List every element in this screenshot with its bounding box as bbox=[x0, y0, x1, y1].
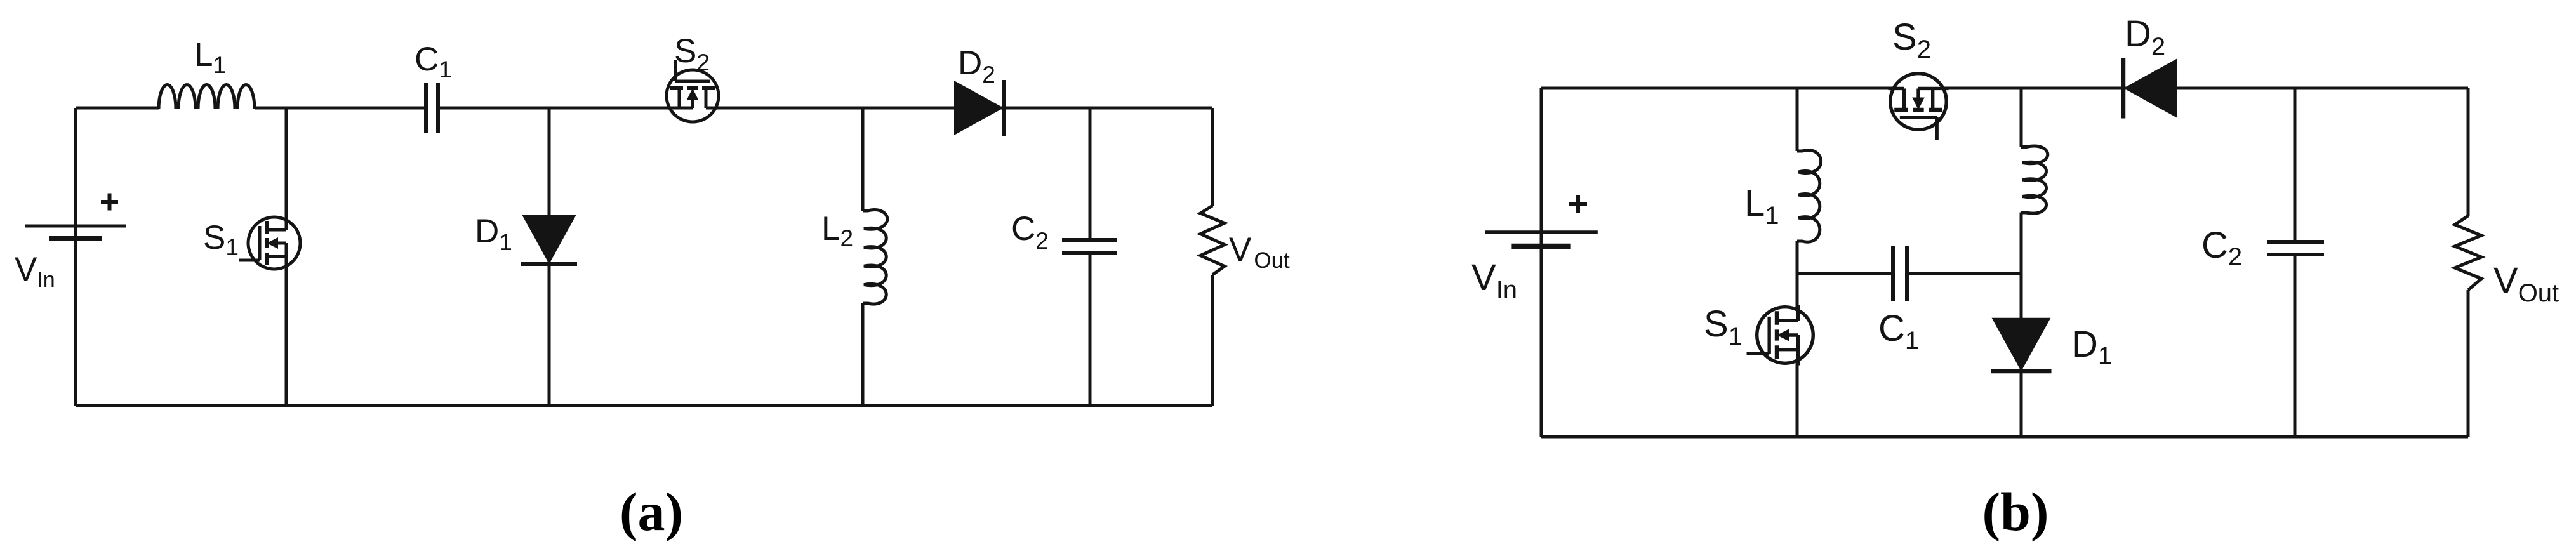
svg-text:C1: C1 bbox=[415, 41, 452, 83]
wire: (b) C2 branch upper bbox=[2294, 88, 2297, 242]
svg-text:L1: L1 bbox=[194, 36, 226, 78]
diode D1 (b) bbox=[1991, 318, 2051, 371]
svg-text:S1: S1 bbox=[1704, 303, 1743, 350]
wire: (b) left branch bbox=[1540, 88, 1543, 437]
svg-text:(a): (a) bbox=[620, 481, 683, 542]
svg-text:S2: S2 bbox=[1892, 17, 1931, 63]
transistor S1 (a) bbox=[239, 215, 300, 271]
svg-text:C2: C2 bbox=[1011, 210, 1049, 254]
svg-text:D1: D1 bbox=[2071, 324, 2112, 370]
diode D2 (a) bbox=[954, 80, 1004, 136]
wire: (a) L2 branch upper bbox=[861, 108, 865, 211]
inductor L1 (b) bbox=[1797, 150, 1821, 242]
inductor L1 bbox=[159, 85, 255, 109]
wire: (a) right branch upper bbox=[1211, 108, 1214, 206]
svg-text:(b): (b) bbox=[1982, 481, 2048, 542]
polarity plus sign (a) bbox=[101, 194, 118, 211]
wire: (a) right branch lower bbox=[1211, 275, 1214, 406]
wire: (a) S1 branch bbox=[285, 108, 288, 406]
wire: (b) branch1 lower bbox=[1796, 241, 1799, 437]
wire: (a) C2 branch lower bbox=[1089, 253, 1092, 406]
svg-text:C1: C1 bbox=[1878, 308, 1919, 355]
svg-text:D1: D1 bbox=[475, 213, 512, 255]
wire: (a) top rail left segment bbox=[76, 107, 159, 110]
wire: (b) top rail bbox=[1541, 87, 2468, 90]
svg-text:VIn: VIn bbox=[15, 251, 55, 292]
svg-text:S1: S1 bbox=[203, 219, 239, 260]
wire: (a) left branch with source bbox=[74, 108, 77, 406]
svg-text:VOut: VOut bbox=[2493, 260, 2559, 307]
resistor Vout (a) bbox=[1200, 206, 1225, 275]
battery Vin (b) bbox=[1485, 232, 1598, 246]
transistor S2 (a) bbox=[665, 60, 720, 122]
svg-text:D2: D2 bbox=[958, 44, 995, 88]
svg-text:L2: L2 bbox=[821, 210, 853, 251]
svg-text:D2: D2 bbox=[2125, 13, 2165, 61]
transistor S2 (b) bbox=[1888, 74, 1948, 140]
wire: (a) bottom rail bbox=[76, 404, 1212, 407]
wire: (b) C1 link right bbox=[1909, 272, 2021, 275]
wire: (b) branch1 upper bbox=[1796, 88, 1799, 151]
resistor Vout (b) bbox=[2455, 216, 2481, 290]
wire: (b) C2 branch lower bbox=[2294, 255, 2297, 437]
wire: (a) C2 branch upper bbox=[1089, 108, 1092, 240]
capacitor C2 (b) bbox=[2267, 242, 2324, 255]
wire: (a) D1 branch bbox=[548, 108, 551, 406]
wire: (b) branch2 upper bbox=[2020, 88, 2023, 147]
polarity plus sign (b) bbox=[1569, 195, 1587, 213]
wire: (b) C1 link left bbox=[1797, 272, 1891, 275]
transistor S1 (b) bbox=[1747, 305, 1814, 365]
inductor L2 bbox=[863, 210, 887, 304]
wire: (b) branch2 lower bbox=[2020, 213, 2023, 437]
capacitor C1 (b) bbox=[1893, 246, 1907, 301]
diode D2 (b) bbox=[2123, 58, 2177, 118]
svg-text:S2: S2 bbox=[674, 32, 710, 76]
svg-text:C2: C2 bbox=[2201, 225, 2242, 271]
diode D1 (a) bbox=[521, 215, 577, 264]
wire: (a) top rail between L1 and C1 bbox=[255, 107, 425, 110]
svg-text:VIn: VIn bbox=[1471, 257, 1517, 304]
svg-text:VOut: VOut bbox=[1229, 231, 1290, 273]
wire: (b) bottom rail bbox=[1541, 435, 2468, 439]
wire: (b) right branch lower bbox=[2467, 290, 2470, 437]
capacitor C1 bbox=[426, 83, 438, 133]
wire: (a) L2 branch lower bbox=[861, 303, 865, 406]
svg-text:L1: L1 bbox=[1744, 183, 1779, 230]
inductor L2 (b) bbox=[2021, 146, 2048, 213]
wire: (b) right branch upper bbox=[2467, 88, 2470, 216]
battery Vin (a) bbox=[25, 226, 126, 239]
capacitor C2 (a) bbox=[1062, 240, 1117, 253]
wire: (a) top rail from C1 to right corner bbox=[439, 107, 1212, 110]
